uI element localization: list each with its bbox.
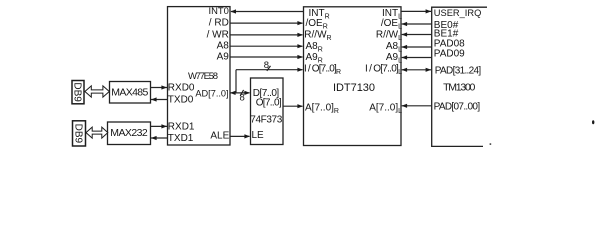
svg-text:USER_IRQ: USER_IRQ <box>434 8 482 18</box>
svg-text:8: 8 <box>264 60 269 71</box>
svg-text:74F373: 74F373 <box>250 115 282 126</box>
svg-text:PAD09: PAD09 <box>434 49 465 60</box>
svg-text:PAD[07..00]: PAD[07..00] <box>434 101 481 112</box>
svg-text:TM1300: TM1300 <box>443 82 475 94</box>
svg-text:A9: A9 <box>217 52 230 63</box>
svg-text:RXD0: RXD0 <box>168 82 195 93</box>
svg-text:IDT7130: IDT7130 <box>333 82 375 94</box>
svg-text:/ RD: / RD <box>209 18 229 29</box>
svg-text:I / O[7..0]L: I / O[7..0]L <box>365 63 402 76</box>
svg-text:INT0: INT0 <box>208 5 228 16</box>
svg-text:ALE: ALE <box>210 131 229 142</box>
svg-text:DB9: DB9 <box>72 82 83 102</box>
svg-text:O[7..0]: O[7..0] <box>256 98 282 109</box>
svg-text:I / O[7..0]R: I / O[7..0]R <box>304 63 341 76</box>
svg-text:W77E58: W77E58 <box>188 71 218 82</box>
svg-text:A[7..0]R: A[7..0]R <box>305 102 339 115</box>
svg-text:A8: A8 <box>217 41 230 52</box>
svg-text:8: 8 <box>240 93 245 104</box>
svg-text:LE: LE <box>252 130 265 141</box>
svg-text:MAX485: MAX485 <box>111 86 148 98</box>
svg-text:DB9: DB9 <box>73 124 84 144</box>
svg-text:PAD[31..24]: PAD[31..24] <box>435 65 482 76</box>
svg-text:MAX232: MAX232 <box>110 127 148 139</box>
svg-text:A[7..0]L: A[7..0]L <box>369 102 402 115</box>
svg-text:TXD0: TXD0 <box>168 95 194 106</box>
svg-text:/ WR: / WR <box>207 29 229 40</box>
svg-text:RXD1: RXD1 <box>168 121 195 132</box>
svg-text:TXD1: TXD1 <box>168 133 194 144</box>
svg-text:AD[7..0]: AD[7..0] <box>195 89 228 99</box>
